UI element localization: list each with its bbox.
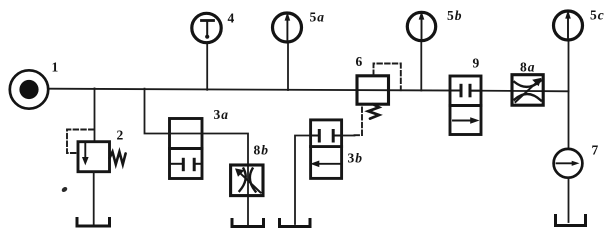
valve 6 body — [357, 76, 389, 104]
tank below flow meter 7 — [556, 216, 586, 226]
valve 3b blocked ports — [311, 131, 342, 142]
wire valve 2 to tank — [93, 172, 95, 225]
wire through throttle 8b to tank — [247, 165, 249, 226]
pressure gauge 5b — [407, 11, 435, 41]
wire from main line down and right to valve 3a — [145, 89, 170, 134]
svg-text:4: 4 — [228, 11, 235, 26]
svg-text:1: 1 — [52, 60, 59, 75]
thermometer 4 — [192, 13, 221, 42]
svg-text:5a: 5a — [310, 10, 325, 25]
svg-text:6: 6 — [356, 54, 363, 69]
valve 9 body (2-position) — [450, 76, 481, 135]
pilot line valve 6 to valve 3b (dashed) — [355, 104, 363, 135]
svg-text:3b: 3b — [348, 151, 363, 166]
wire from main line down to valve 2 — [94, 88, 96, 141]
svg-text:8a: 8a — [520, 60, 535, 75]
svg-text:9: 9 — [473, 56, 480, 71]
wire flow meter 7 to tank — [568, 178, 570, 222]
ink speck — [61, 186, 68, 193]
valve 3a open-position through line — [170, 133, 203, 135]
valve 3b body (2-position) — [311, 120, 342, 178]
wire valve 3b right port stub — [342, 135, 355, 137]
throttle valve 8a adjust arrow — [516, 79, 541, 103]
svg-text:5b: 5b — [447, 8, 462, 23]
throttle valve 8b restriction arcs — [240, 169, 256, 192]
wire from valve 3b left port down to tank — [295, 136, 311, 225]
valve 3a closed-position blocked ports — [170, 159, 203, 169]
gauge 4 stem wire — [206, 43, 208, 90]
throttle valve 8b adjust arrow — [236, 169, 261, 193]
svg-text:7: 7 — [592, 143, 599, 158]
throttle valve 8a body — [512, 75, 543, 106]
valve 6 remote pilot (dashed) — [374, 64, 401, 91]
wire main supply line left of valve 9 — [50, 89, 462, 91]
tank below valve 2 — [77, 219, 110, 227]
valve 6 spring — [368, 104, 379, 118]
relief valve 2 flow arrow — [83, 144, 88, 165]
gauge 5b stem wire — [420, 41, 422, 91]
relief valve 2 body — [78, 142, 110, 172]
flow meter 7 — [554, 149, 583, 178]
svg-text:3a: 3a — [214, 107, 229, 122]
svg-text:2: 2 — [117, 128, 124, 143]
svg-text:8b: 8b — [254, 143, 269, 158]
relief valve 2 spring — [110, 152, 126, 165]
pressure gauge 5a — [273, 12, 302, 42]
pump 1 — [10, 70, 48, 108]
pressure gauge 5c — [554, 10, 583, 40]
svg-text:5c: 5c — [590, 8, 604, 23]
tank below throttle 8b — [232, 220, 264, 227]
throttle valve 8a restriction arcs — [515, 81, 542, 101]
wire right branch vertical (gauge 5c to flow meter 7) — [568, 40, 570, 149]
wire main line right of valve 9 T-gap — [470, 90, 569, 93]
wire valve 3a to throttle 8b — [202, 134, 248, 166]
relief valve 2 pilot line (dashed) — [67, 130, 94, 154]
gauge 5a stem wire — [287, 43, 289, 91]
valve 3a body (2-position) — [170, 119, 203, 179]
valve 9 blocked ports — [450, 85, 481, 96]
tank below valve 3b branch — [280, 220, 311, 227]
valve 9 lower-position flow arrow — [453, 118, 478, 123]
throttle valve 8b body — [231, 165, 263, 196]
valve 3b lower-position flow arrow (to tank) — [312, 161, 342, 166]
